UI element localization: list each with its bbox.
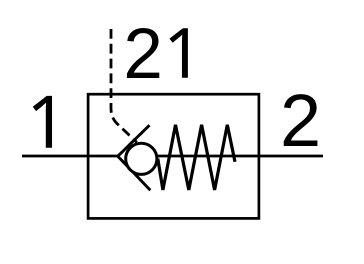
svg-text:2: 2 (123, 15, 162, 94)
svg-text:2: 2 (280, 79, 321, 162)
